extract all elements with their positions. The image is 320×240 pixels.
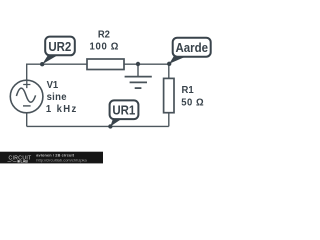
flag UR2 box xyxy=(45,37,75,56)
svg-text:Aarde: Aarde xyxy=(175,41,208,56)
watermark bar xyxy=(0,152,103,164)
svg-text:UR2: UR2 xyxy=(48,40,71,55)
wire top from V1 to node A xyxy=(27,63,169,65)
svg-text:R2: R2 xyxy=(98,29,111,40)
ground symbol xyxy=(125,64,152,88)
flag Aarde box xyxy=(173,38,211,57)
node A junction (Aarde) xyxy=(167,62,171,66)
svg-text:LAB: LAB xyxy=(21,159,29,163)
flag UR2 tail xyxy=(42,54,58,64)
svg-text:100 Ω: 100 Ω xyxy=(90,41,120,52)
V1 minus sign xyxy=(23,105,31,107)
svg-text:sine: sine xyxy=(47,92,67,103)
resistor R2 body xyxy=(87,59,124,70)
svg-text:50 Ω: 50 Ω xyxy=(181,97,204,108)
watermark CircuitLab logo xyxy=(8,155,32,163)
svg-text:UR1: UR1 xyxy=(112,103,135,118)
resistor R1 body xyxy=(164,78,174,112)
wire left vertical from V1 bottom terminal to bottom wire xyxy=(26,113,28,127)
wire left vertical from top wire to V1 top terminal xyxy=(26,64,28,81)
flag UR1 box xyxy=(110,100,139,119)
flag Aarde tail xyxy=(169,55,186,64)
flag UR1 tail xyxy=(110,118,122,127)
node junction at ground xyxy=(136,62,140,66)
V1 plus sign xyxy=(23,81,30,88)
wire right vertical from node A through R1 to bottom wire xyxy=(168,64,170,127)
voltage source V1 circle xyxy=(10,80,43,113)
svg-text:http://circuitlab.com/chhzpka: http://circuitlab.com/chhzpka xyxy=(36,157,87,162)
svg-text:R1: R1 xyxy=(182,85,195,96)
node junction for UR2 xyxy=(40,62,44,66)
svg-text:V1: V1 xyxy=(47,80,59,91)
svg-text:1 kHz: 1 kHz xyxy=(46,104,78,115)
node junction for UR1 xyxy=(108,124,112,128)
V1 sine waveform glyph xyxy=(16,88,35,102)
wire bottom from V1 to R1 bottom xyxy=(27,125,169,127)
